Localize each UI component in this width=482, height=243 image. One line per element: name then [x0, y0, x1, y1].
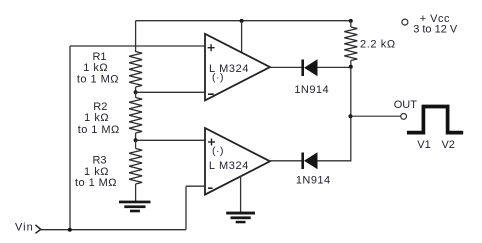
svg-text:R2: R2 [93, 101, 107, 113]
svg-text:Vin: Vin [15, 222, 34, 234]
wire: U1 output [268, 66, 302, 68]
wire: output bus down [350, 67, 352, 161]
junction: D1 / R4 / output bus [349, 65, 353, 69]
junction: Vin / left rail [68, 228, 72, 232]
junction: rail / U1 power pin [240, 19, 244, 23]
svg-text:1 kΩ: 1 kΩ [84, 112, 109, 124]
wire: R3 to ground stem [135, 184, 137, 201]
label R1 value [77, 51, 119, 85]
diode D2 1N914 [301, 152, 317, 169]
ground (below U2) [226, 212, 255, 224]
resistor R3 [129, 149, 142, 185]
diode D1 1N914 [301, 59, 317, 76]
waveform icon: square pulse [407, 107, 463, 133]
svg-text:(·): (·) [212, 71, 224, 83]
svg-text:1 kΩ: 1 kΩ [83, 62, 108, 74]
wire: Vin line [41, 229, 186, 231]
svg-text:to 1 MΩ: to 1 MΩ [78, 124, 120, 136]
wire: OUT tap to terminal [351, 115, 401, 117]
wire: node B to U2 non-inverting input [136, 139, 205, 141]
wire: top feedback rail [136, 20, 351, 22]
wire: R1 to node A stub [135, 87, 137, 92]
svg-text:V1: V1 [417, 139, 430, 151]
resistor R2 [129, 98, 142, 134]
wire: U2 ground stem [240, 176, 242, 212]
svg-text:R3: R3 [92, 154, 106, 166]
svg-text:OUT: OUT [394, 99, 418, 111]
wire: D1 to output junction [318, 66, 351, 68]
svg-text:(·): (·) [212, 145, 224, 157]
input chevron [35, 225, 40, 233]
resistor R1 [129, 52, 142, 88]
wire: U1 power pin [241, 21, 243, 53]
svg-text:1N914: 1N914 [294, 84, 329, 96]
wire: left rail [69, 46, 71, 230]
terminal OUT [401, 114, 407, 120]
node A: R1-R2 junction [134, 90, 138, 94]
wire: U2 output [268, 160, 302, 162]
wire: left rail to U1 non-inverting input [70, 45, 205, 47]
ground (below R3) [119, 201, 151, 213]
node B: R2-R3 junction [134, 138, 138, 142]
svg-text:L M324: L M324 [209, 160, 249, 172]
svg-text:V2: V2 [441, 139, 454, 151]
svg-text:1N914: 1N914 [296, 175, 331, 187]
op-amp U1 [205, 34, 270, 101]
wire: D2 to output bus [318, 160, 352, 162]
resistor R4 2.2 kOhm [344, 27, 357, 61]
label R2 value [78, 101, 120, 136]
svg-text:2.2 kΩ: 2.2 kΩ [360, 39, 396, 51]
power terminal +Vcc [402, 19, 408, 25]
label R3 value [75, 154, 117, 189]
svg-text:to 1 MΩ: to 1 MΩ [75, 177, 117, 189]
wire: Vin up to U2 inverting input [185, 186, 187, 230]
wire: rail down to R1 [135, 21, 137, 52]
wire: node A to U1 inverting input [136, 91, 205, 93]
svg-text:3 to 12 V: 3 to 12 V [413, 23, 458, 35]
svg-text:to 1 MΩ: to 1 MΩ [77, 73, 119, 85]
op-amp U2 [205, 128, 270, 195]
junction: OUT tap [349, 114, 353, 118]
junction: rail / 2.2k resistor [349, 19, 353, 23]
